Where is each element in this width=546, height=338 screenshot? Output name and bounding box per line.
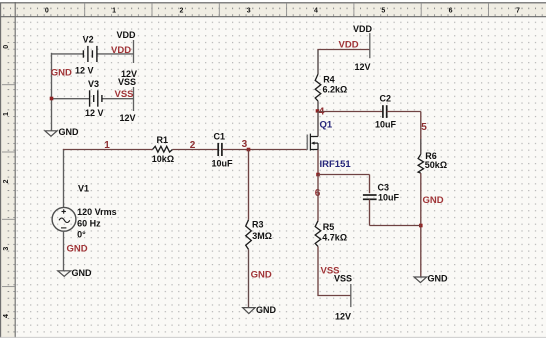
svg-text:120 Vrms: 120 Vrms <box>77 207 117 217</box>
svg-text:1: 1 <box>112 7 116 14</box>
wire net 1 (V1 to R1) <box>63 149 153 151</box>
svg-text:10kΩ: 10kΩ <box>152 154 174 164</box>
svg-text:3MΩ: 3MΩ <box>252 231 272 241</box>
svg-text:4: 4 <box>3 314 10 318</box>
svg-text:C3: C3 <box>378 183 390 193</box>
wire right rail down to R6 <box>420 112 422 140</box>
svg-text:6: 6 <box>449 7 453 14</box>
svg-text:GND: GND <box>428 274 449 284</box>
svg-text:V1: V1 <box>78 183 89 193</box>
wire VDD to R4 (top right vertical) <box>317 50 319 75</box>
svg-text:GND: GND <box>256 305 277 315</box>
left ruler band <box>0 17 15 338</box>
svg-text:0: 0 <box>45 7 49 14</box>
wire node 6 to C3 <box>318 174 370 176</box>
wire net 2 (R1 to C1) <box>172 149 218 151</box>
ruler frame lines <box>0 2 546 4</box>
svg-text:5: 5 <box>381 7 385 14</box>
wire V2 right to VDD <box>97 53 134 55</box>
svg-text:0: 0 <box>3 45 10 49</box>
ground (under R6) <box>414 277 427 283</box>
svg-text:R3: R3 <box>252 220 264 230</box>
svg-text:4.7kΩ: 4.7kΩ <box>322 232 347 242</box>
power symbol VDD top right <box>353 24 373 72</box>
svg-text:0°: 0° <box>77 229 86 239</box>
svg-text:10uF: 10uF <box>378 193 400 203</box>
svg-text:3: 3 <box>247 7 251 14</box>
ground (under R3) <box>243 308 256 314</box>
wire R6 top pin lead <box>420 139 422 154</box>
svg-text:GND: GND <box>72 268 93 278</box>
svg-text:R4: R4 <box>323 75 335 85</box>
capacitor C3 <box>363 195 377 199</box>
wire node 3 down to R3 <box>248 150 250 220</box>
svg-text:V2: V2 <box>83 35 94 45</box>
wire C3 bottom lead <box>369 199 371 225</box>
wire R5 down to VSS corner <box>317 246 319 295</box>
source V1 <box>52 207 76 231</box>
wire V2 left to rail <box>51 53 84 55</box>
node 6 junction <box>316 173 320 177</box>
transistor Q1 IRF151 <box>307 134 318 151</box>
svg-text:50kΩ: 50kΩ <box>425 160 447 170</box>
svg-text:GND: GND <box>423 195 444 206</box>
resistor R6 <box>418 154 423 173</box>
resistor R4 <box>315 74 321 101</box>
svg-text:V3: V3 <box>88 79 99 89</box>
wire C3 top lead <box>369 175 371 194</box>
svg-text:R1: R1 <box>157 135 169 145</box>
ground (top-left) <box>45 131 57 136</box>
svg-text:12 V: 12 V <box>75 66 94 76</box>
svg-text:C2: C2 <box>380 94 392 104</box>
power symbol VDD left <box>117 30 138 79</box>
wire drain lead <box>317 112 319 137</box>
svg-text:GND: GND <box>67 244 88 255</box>
resistor R1 <box>153 146 173 152</box>
svg-text:R5: R5 <box>323 222 335 232</box>
svg-text:4: 4 <box>314 7 318 14</box>
junction C3 to right rail <box>419 224 423 228</box>
svg-text:IRF151: IRF151 <box>320 159 352 170</box>
wire left rail vertical <box>51 53 53 131</box>
wire C3 to right rail <box>370 225 421 227</box>
wire V1 top vertical <box>63 149 65 208</box>
svg-text:60 Hz: 60 Hz <box>77 218 101 228</box>
battery V3 <box>90 90 102 106</box>
wire net 4 to C2 <box>318 111 383 113</box>
svg-text:GND: GND <box>251 269 272 280</box>
svg-text:VSS: VSS <box>321 266 340 277</box>
capacitor C2 <box>383 105 387 118</box>
node junction on left rail <box>50 97 54 101</box>
svg-text:GND: GND <box>51 67 72 78</box>
svg-text:VDD: VDD <box>117 30 137 40</box>
svg-text:3: 3 <box>3 247 10 251</box>
wire V3 right to VSS <box>102 98 134 100</box>
wire R6 to ground <box>420 173 422 277</box>
node 4 junction <box>316 109 319 112</box>
svg-text:12V: 12V <box>120 113 136 123</box>
svg-text:1: 1 <box>3 112 10 116</box>
wire V3 left to rail <box>51 98 90 100</box>
wire VDD horizontal (top right) <box>317 49 369 51</box>
power symbol VSS left <box>118 77 136 123</box>
svg-text:5: 5 <box>421 122 427 133</box>
svg-text:2: 2 <box>3 179 10 183</box>
capacitor C1 <box>218 143 222 156</box>
node 3 junction <box>247 148 251 152</box>
resistor R5 <box>315 221 321 247</box>
svg-text:C1: C1 <box>214 132 226 142</box>
ground (under V1) <box>58 271 71 277</box>
wire VSS horizontal bottom <box>317 295 350 297</box>
svg-text:7: 7 <box>516 7 520 14</box>
svg-text:12 V: 12 V <box>85 108 104 118</box>
power symbol VSS bottom <box>334 274 352 322</box>
battery V2 <box>83 46 97 62</box>
svg-text:2: 2 <box>190 140 196 151</box>
svg-text:VSS: VSS <box>118 77 136 87</box>
wire C2 to right rail <box>387 111 421 113</box>
svg-text:6.2kΩ: 6.2kΩ <box>323 85 348 95</box>
svg-text:10uF: 10uF <box>212 159 234 169</box>
svg-text:VDD: VDD <box>111 45 131 56</box>
svg-text:VDD: VDD <box>339 40 359 51</box>
wire V1 bottom vertical <box>63 231 65 271</box>
svg-text:VSS: VSS <box>115 89 134 100</box>
svg-text:12V: 12V <box>335 312 351 322</box>
svg-text:GND: GND <box>59 127 80 137</box>
svg-text:2: 2 <box>179 7 183 14</box>
svg-text:1: 1 <box>104 140 110 151</box>
wire net 3 (C1 to gate) <box>222 149 307 151</box>
wire node 6 down to R5 <box>317 175 319 221</box>
wire source lead to node 6 <box>317 150 319 175</box>
resistor R3 <box>246 220 252 250</box>
svg-text:12V: 12V <box>355 62 371 72</box>
wire R4 to node 4 <box>317 101 319 111</box>
top ruler band <box>0 3 546 16</box>
wire R3 to ground <box>248 249 250 307</box>
svg-text:10uF: 10uF <box>375 120 397 130</box>
svg-text:VDD: VDD <box>353 24 373 34</box>
svg-text:Q1: Q1 <box>320 119 333 130</box>
